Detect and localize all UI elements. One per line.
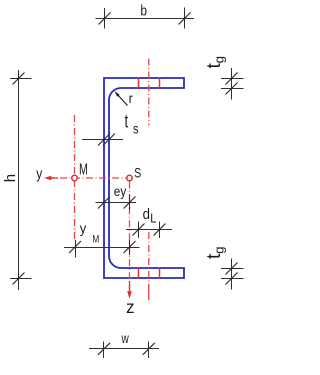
svg-text:r: r	[129, 91, 134, 107]
dimension tg top: extension lower	[221, 88, 244, 90]
dimension ts: line	[82, 139, 123, 141]
svg-text:d: d	[143, 205, 150, 222]
svg-text:w: w	[121, 331, 129, 347]
svg-text:M: M	[79, 161, 88, 179]
svg-text:M: M	[92, 233, 99, 245]
dimension b: tick right	[179, 13, 191, 25]
dimension tg top: extension upper	[221, 78, 244, 80]
M centerline	[74, 115, 76, 239]
dimension h: tick bottom	[13, 273, 25, 285]
point S	[127, 175, 132, 180]
hole edge bottom-left	[138, 267, 140, 279]
dimension h: extension top	[10, 78, 32, 80]
dimension yM: extension right	[129, 240, 131, 255]
z axis	[129, 181, 131, 292]
dimension h: tick top	[13, 73, 25, 85]
dimension ey: extension right	[129, 195, 131, 211]
hole edge top-right	[159, 77, 161, 89]
dimension w: extension left	[103, 342, 105, 359]
dimension tg top: tick upper	[226, 73, 238, 85]
dimension b: extension right	[184, 8, 186, 29]
svg-text:t: t	[125, 111, 129, 132]
radius arrow	[117, 94, 128, 106]
dimension ey: line	[96, 202, 137, 204]
dimension dL: line	[126, 229, 172, 231]
svg-text:L: L	[150, 211, 156, 226]
dimension tg bottom: line	[231, 259, 233, 290]
hole centerline top	[148, 59, 150, 126]
dimension h: extension bottom	[10, 278, 32, 280]
dimension b: extension left	[104, 8, 106, 29]
dimension w: extension right	[148, 342, 150, 359]
dimension tg top: tick lower	[226, 83, 238, 95]
dimension ey: tick right	[124, 197, 136, 209]
dimension yM: tick right	[124, 241, 136, 253]
svg-text:y: y	[80, 220, 87, 236]
y axis	[47, 177, 126, 179]
dimension yM: extension left	[75, 240, 77, 258]
channel profile outline	[104, 78, 184, 278]
dimension yM: tick left	[69, 241, 81, 253]
dimension w: tick right	[143, 343, 155, 355]
dimension dL: tick left	[133, 224, 145, 236]
y axis arrow	[51, 177, 59, 179]
dimension tg bottom: extension lower	[221, 278, 244, 280]
dimension b: line	[96, 18, 195, 20]
hole centerline bottom	[148, 232, 150, 300]
dimension dL: tick right	[154, 224, 166, 236]
dimension b: tick left	[99, 13, 111, 25]
dimension tg top: line	[231, 68, 233, 100]
svg-text:h: h	[2, 174, 19, 182]
dimension dL: extension left	[138, 222, 140, 239]
hole edge top-left	[138, 77, 140, 89]
dimension w: tick left	[98, 343, 110, 355]
dimension ts: tick right	[103, 134, 115, 146]
hole edge bottom-right	[159, 267, 161, 279]
dimension ts: tick left	[98, 134, 110, 146]
dimension h: line	[18, 70, 20, 290]
dimension yM: line	[64, 247, 140, 249]
svg-text:b: b	[140, 2, 147, 19]
dimension w: line	[89, 348, 159, 350]
dimension tg bottom: tick lower	[226, 273, 238, 285]
point M	[72, 175, 77, 180]
svg-text:y: y	[36, 165, 42, 182]
svg-text:ey: ey	[114, 184, 127, 199]
svg-text:s: s	[133, 121, 139, 136]
dimension dL: extension right	[159, 222, 161, 239]
dimension ey: tick left	[98, 197, 110, 209]
z axis arrow	[129, 281, 131, 292]
dimension tg bottom: tick upper	[226, 263, 238, 275]
svg-text:z: z	[126, 296, 135, 317]
dimension tg bottom: extension upper	[221, 268, 244, 270]
svg-text:S: S	[134, 165, 141, 181]
